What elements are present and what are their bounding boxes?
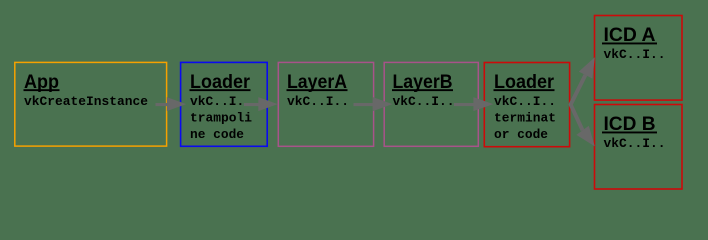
underline LayerB [392,89,453,91]
underline ICD B [602,132,657,134]
arrow Loader (terminator) to ICD A [570,57,595,105]
box Loader (terminator) [484,63,569,147]
arrow App to Loader [156,97,187,111]
underline ICD A [602,43,657,45]
arrow Loader to LayerA [244,97,278,111]
underline Loader [190,89,251,91]
svg-text:vkCreateInstance: vkCreateInstance [24,94,148,109]
arrow LayerB to Loader (terminator) [454,97,493,111]
svg-text:terminat: terminat [494,110,556,125]
arrow Loader (terminator) to ICD B [570,104,595,147]
box App [15,62,167,146]
box LayerA [278,62,373,146]
box Loader (trampoline) [181,62,268,146]
svg-text:ne code: ne code [190,127,244,142]
svg-text:vkC..I..: vkC..I.. [190,94,252,109]
underline App [24,89,60,91]
svg-text:vkC..I..: vkC..I.. [287,94,349,109]
underline Loader (terminator) [494,89,555,91]
svg-text:vkC..I..: vkC..I.. [494,94,556,109]
box LayerB [384,62,478,146]
svg-text:trampoli: trampoli [190,110,252,125]
box ICD A [595,16,683,101]
arrow LayerA to LayerB [354,97,393,111]
svg-text:vkC..I..: vkC..I.. [604,47,666,62]
box ICD B [595,105,683,190]
svg-text:vkC..I..: vkC..I.. [604,136,666,151]
svg-text:vkC..I..: vkC..I.. [393,94,455,109]
underline LayerA [287,89,348,91]
svg-text:or code: or code [494,127,548,142]
